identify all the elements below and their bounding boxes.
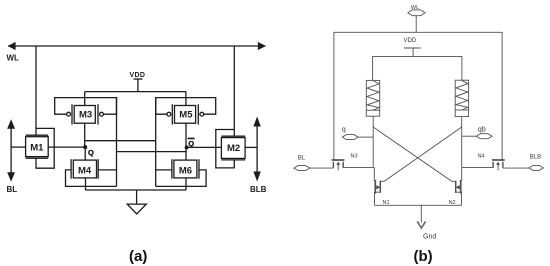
ground symbol triangle [127, 204, 146, 214]
BL terminal ellipse (b) [294, 166, 310, 171]
wire VDD rail to memristor M-right [461, 56, 463, 80]
VDD terminal bar [134, 78, 143, 80]
svg-text:WL: WL [7, 53, 20, 62]
wire memristor left to node q [372, 116, 374, 167]
svg-text:BL: BL [7, 185, 18, 194]
WL terminal ellipse [408, 10, 425, 16]
svg-text:M2: M2 [227, 143, 240, 154]
svg-text:(a): (a) [129, 248, 147, 265]
wire M5 source to VDD rail [185, 92, 187, 106]
wire VDD stem (b) [412, 48, 414, 56]
transistor N4 (access) [462, 160, 505, 170]
ground arrowhead (b) [417, 221, 425, 228]
wire M4 source to ground rail [85, 178, 87, 190]
wire M6 drain to node QB [185, 147, 187, 160]
wire M1 gate loop [36, 128, 54, 168]
wire memristor right to node qb [461, 117, 463, 167]
node Q junction dot [83, 145, 87, 149]
svg-text:N3: N3 [351, 154, 358, 160]
svg-text:q: q [342, 125, 346, 134]
wire M5 drain to node QB [185, 123, 187, 147]
wire cross couple q node to N2 drain [373, 127, 452, 181]
wire M3 source to VDD rail [84, 92, 86, 106]
transistor M1 (access NMOS) [26, 135, 49, 158]
node QB junction dot [185, 145, 189, 149]
wire WL stem [415, 16, 417, 33]
wire WL gate drop to M1 [35, 46, 37, 135]
wire M6 source to ground rail [185, 178, 187, 190]
bit line BL [7, 119, 15, 181]
wire M2 to BLB [245, 146, 257, 148]
svg-text:qb: qb [478, 125, 486, 134]
WL right arrowhead [258, 42, 266, 50]
wire ground stem (b) [420, 205, 422, 222]
VDD terminal bar (b) [404, 47, 421, 49]
q terminal ellipse [342, 135, 358, 140]
wire right inverter gate rail [155, 98, 157, 187]
wire q to node [358, 136, 373, 138]
memristor left [366, 80, 379, 116]
wire BL to N3 [310, 167, 334, 169]
wire left inverter gate rail [116, 98, 118, 187]
wire node qb down to N2 gate [460, 167, 462, 180]
svg-text:VDD: VDD [130, 72, 146, 79]
wire WL gate drop to M2 [233, 46, 235, 136]
wire M4 right gate stub [98, 169, 116, 171]
svg-text:M1: M1 [30, 143, 44, 154]
transistor M5 (PMOS) [167, 104, 204, 124]
BLB terminal ellipse (b) [529, 165, 544, 170]
wire ground rail (b) [375, 204, 462, 206]
wire ground rail [86, 189, 187, 191]
wire M3 gate loop [55, 98, 117, 115]
svg-text:M3: M3 [79, 110, 92, 121]
svg-text:BLB: BLB [250, 185, 267, 194]
transistor M6 (NMOS) [172, 159, 199, 179]
wire M4 gate loop [66, 170, 117, 187]
wire cross-couple Q to right gate rail [85, 140, 156, 142]
transistor M2 (access NMOS) [221, 136, 245, 160]
svg-text:M6: M6 [179, 165, 192, 176]
label QB with overbar [188, 138, 195, 148]
svg-text:N4: N4 [478, 154, 485, 160]
svg-text:M4: M4 [78, 165, 92, 176]
wire word line WL [8, 45, 266, 47]
wire VDD rail (b) [372, 55, 462, 57]
WL left arrowhead [8, 42, 16, 50]
svg-text:BL: BL [298, 155, 306, 161]
wire VDD stem [137, 79, 139, 92]
svg-text:(b): (b) [414, 248, 433, 265]
transistor M3 (PMOS) [67, 104, 104, 124]
wire cross couple qb node to N1 drain [384, 127, 461, 181]
wire node q down to N1 gate [374, 167, 376, 180]
wire node QB to M2 [187, 146, 222, 148]
wire cross-couple QB to left gate rail [117, 151, 187, 153]
wire BL to M1 [11, 146, 26, 148]
wire M3 drain to node Q [84, 123, 86, 147]
memristor right [455, 80, 468, 116]
wire VDD rail [85, 91, 186, 93]
wire qb to node [462, 135, 477, 137]
wire M2 gate loop [216, 130, 235, 168]
svg-text:M5: M5 [179, 110, 193, 121]
svg-text:BLB: BLB [530, 155, 541, 161]
svg-text:Q: Q [188, 139, 194, 148]
wire WL rail and gate drops [334, 32, 502, 159]
transistor N3 (access) [332, 160, 375, 170]
wire VDD rail to memristor M-left [372, 56, 374, 80]
wire ground stem [136, 190, 138, 204]
svg-text:VDD: VDD [404, 38, 417, 44]
wire M6 gate loop [156, 170, 206, 187]
qb terminal ellipse [476, 134, 492, 139]
transistor M4 (NMOS) [71, 159, 98, 179]
wire BLB to N4 [503, 167, 529, 169]
wire M6 left gate stub [156, 169, 172, 171]
bit line BLB [253, 117, 260, 182]
transistor N1 [375, 180, 385, 205]
wire M1 to node Q [48, 146, 85, 148]
svg-text:Q: Q [88, 148, 94, 157]
transistor N2 [452, 180, 462, 205]
wire M5 gate loop [156, 98, 216, 115]
wire M4 drain to node Q [84, 147, 86, 160]
svg-text:Gnd: Gnd [423, 234, 436, 241]
